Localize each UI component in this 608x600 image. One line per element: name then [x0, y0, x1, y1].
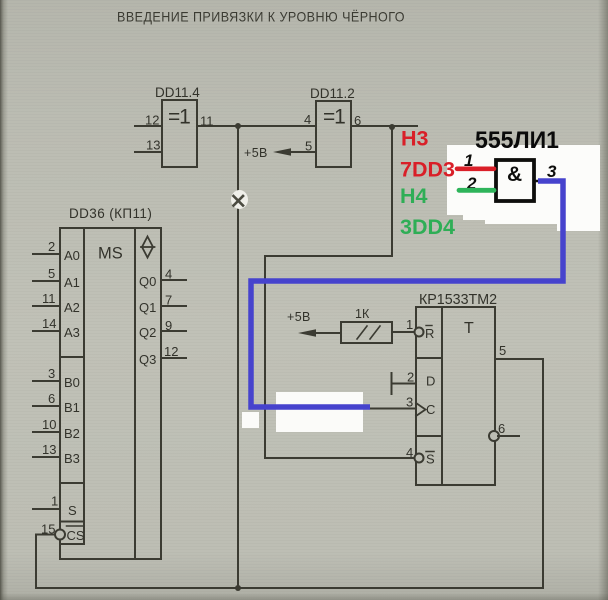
- bottom bus wire: [36, 587, 543, 589]
- dynamic input triangle at C: [416, 403, 426, 416]
- gate DD11.2 function label =1: [323, 106, 345, 129]
- svg-text:T: T: [464, 320, 474, 337]
- wire input pin 13 of DD11.4: [135, 151, 162, 153]
- svg-text:2: 2: [48, 239, 55, 254]
- svg-text:5: 5: [499, 343, 506, 358]
- white correction patch big: [276, 392, 363, 432]
- handwritten pin number 3: [547, 162, 557, 181]
- svg-text:B3: B3: [64, 451, 80, 466]
- MS function label: [98, 245, 123, 263]
- label C: [426, 402, 435, 417]
- label A2: [64, 300, 80, 315]
- label CS with overline: [67, 526, 85, 543]
- pin number 11: [42, 291, 56, 306]
- handwritten pin number 2: [466, 174, 477, 193]
- pin number 9: [165, 318, 172, 333]
- wire output pin 7 Q1: [161, 305, 186, 307]
- wire input pin 2 A0: [33, 253, 60, 255]
- svg-text:7DD3: 7DD3: [400, 158, 455, 182]
- svg-text:3: 3: [48, 366, 55, 381]
- gate DD11.4 function label =1: [168, 106, 190, 129]
- pin number 14: [42, 316, 56, 331]
- svg-text:ВВЕДЕНИЕ ПРИВЯЗКИ К УРОВНЮ ЧЁР: ВВЕДЕНИЕ ПРИВЯЗКИ К УРОВНЮ ЧЁРНОГО: [117, 9, 405, 25]
- svg-text:11: 11: [42, 291, 56, 306]
- svg-text:3: 3: [406, 395, 413, 410]
- wire output pin 9 Q2: [161, 330, 186, 332]
- label Q1: [139, 300, 156, 315]
- multiplexer DD36: [60, 228, 161, 559]
- inverted output pin 6 circle: [489, 431, 499, 441]
- wire input pin 12 of DD11.4: [135, 125, 162, 127]
- wire stub pin 6: [498, 435, 519, 437]
- svg-text:Н4: Н4: [400, 184, 428, 208]
- annotation Н3 red: [401, 127, 429, 151]
- wire input pin 3 B0: [33, 380, 60, 382]
- label Q3: [139, 352, 156, 367]
- svg-text:9: 9: [165, 318, 172, 333]
- label S: [68, 503, 77, 518]
- +5V label: [244, 146, 268, 160]
- pin number 15: [41, 522, 55, 537]
- svg-text:7: 7: [165, 293, 172, 308]
- svg-text:13: 13: [146, 138, 160, 153]
- svg-text:=1: =1: [168, 106, 190, 129]
- wire input pin 13 B3: [33, 456, 60, 458]
- svg-text:14: 14: [42, 316, 56, 331]
- pin number 5: [305, 139, 312, 154]
- svg-text:Q0: Q0: [139, 274, 156, 289]
- label B0: [64, 375, 80, 390]
- svg-text:&: &: [507, 163, 522, 186]
- junction node B: [389, 124, 395, 130]
- inverted input pin 1 R circle: [415, 328, 424, 337]
- pin number 12: [145, 113, 159, 128]
- annotation Н4 green: [400, 184, 428, 208]
- label A1: [64, 275, 80, 290]
- svg-text:5: 5: [48, 266, 55, 281]
- DD36 chip label: [69, 206, 152, 221]
- svg-text:A2: A2: [64, 300, 80, 315]
- label B3: [64, 451, 80, 466]
- svg-text:12: 12: [164, 344, 178, 359]
- wire output pin 5 of flip-flop to bottom bus: [495, 359, 543, 588]
- svg-text:5: 5: [305, 139, 312, 154]
- diamond output qualifier symbol: [141, 237, 155, 258]
- pin number 5: [499, 343, 506, 358]
- svg-text:Q1: Q1: [139, 300, 156, 315]
- handwritten pin number 1: [464, 151, 473, 170]
- КР1533ТМ2 chip label: [419, 292, 497, 308]
- svg-text:Н3: Н3: [401, 127, 429, 151]
- svg-text:D: D: [426, 374, 435, 389]
- svg-text:S: S: [426, 452, 435, 467]
- wire input pin 10 B2: [33, 431, 60, 433]
- AND gate U1 555ЛИ1 hand-drawn: [496, 160, 534, 201]
- wire input pin 14 A3: [33, 330, 60, 332]
- wire input pin 6 B1: [33, 405, 60, 407]
- gate DD11.4 label: [155, 85, 200, 100]
- svg-text:4: 4: [304, 112, 311, 127]
- pin number 11: [200, 114, 214, 129]
- svg-text:6: 6: [354, 113, 361, 128]
- svg-text:4: 4: [165, 267, 172, 282]
- pin number 6: [354, 113, 361, 128]
- svg-text:C: C: [426, 402, 435, 417]
- svg-text:=1: =1: [323, 106, 345, 129]
- pin number 1: [406, 317, 413, 332]
- svg-text:Q2: Q2: [139, 325, 156, 340]
- +5V feed to pin 5 of DD11.2: [273, 148, 316, 156]
- pin number 6: [48, 391, 55, 406]
- label B1: [64, 400, 80, 415]
- pin number 7: [165, 293, 172, 308]
- svg-text:2: 2: [407, 370, 414, 385]
- inverted input pin 15 CS circle: [55, 530, 65, 540]
- title text: [117, 9, 405, 25]
- svg-text:12: 12: [145, 113, 159, 128]
- pin number 3: [406, 395, 413, 410]
- pin number 2: [407, 370, 414, 385]
- white correction blob under cross mark: [231, 190, 248, 209]
- +5V feed through resistor: [298, 329, 341, 337]
- white correction patch small: [242, 412, 259, 428]
- input pin 2 D stub with bar: [392, 373, 417, 394]
- green wire pin 2 of U1: [459, 188, 494, 193]
- pin number 13: [146, 138, 160, 153]
- pin number 3: [48, 366, 55, 381]
- svg-text:1: 1: [51, 494, 58, 509]
- svg-text:A1: A1: [64, 275, 80, 290]
- pin number 2: [48, 239, 55, 254]
- svg-text:DD11.4: DD11.4: [155, 85, 200, 100]
- wire input pin 5 A1: [33, 280, 60, 282]
- svg-text:555ЛИ1: 555ЛИ1: [475, 127, 559, 154]
- pin number 13: [42, 442, 56, 457]
- wire output pin 12 Q3: [161, 357, 186, 359]
- label B2: [64, 426, 80, 441]
- label A3: [64, 325, 80, 340]
- svg-text:6: 6: [48, 391, 55, 406]
- pin number 5: [48, 266, 55, 281]
- svg-text:B1: B1: [64, 400, 80, 415]
- wire output 11 of DD11.4 to input 4 of DD11.2: [197, 125, 316, 127]
- black output stub pin 3 of U1: [535, 180, 563, 182]
- pin number 1: [51, 494, 58, 509]
- gate DD11.2 label: [310, 86, 355, 101]
- svg-text:3: 3: [547, 162, 557, 181]
- value label 1K: [355, 307, 370, 321]
- wire output 6 of DD11.2: [351, 125, 417, 127]
- label Q2: [139, 325, 156, 340]
- 555ЛИ1 part label: [475, 127, 559, 154]
- wire output pin 4 Q0: [161, 279, 186, 281]
- wire from pin 15 CS to bottom bus: [36, 535, 55, 589]
- label A0: [64, 248, 80, 263]
- svg-text:MS: MS: [98, 245, 123, 263]
- ampersand function label: [507, 163, 522, 186]
- svg-text:4: 4: [406, 445, 413, 460]
- svg-text:1: 1: [406, 317, 413, 332]
- wire resistor to pin 1 R: [392, 331, 414, 333]
- svg-text:КР1533ТМ2: КР1533ТМ2: [419, 292, 497, 308]
- wire input pin 3 C: [368, 408, 416, 410]
- +5V label at resistor: [287, 310, 311, 324]
- svg-text:+5В: +5В: [287, 310, 311, 324]
- pin number 12: [164, 344, 178, 359]
- svg-text:A0: A0: [64, 248, 80, 263]
- svg-text:DD36 (КП11): DD36 (КП11): [69, 206, 152, 221]
- svg-text:CS: CS: [67, 528, 85, 543]
- svg-text:Q3: Q3: [139, 352, 156, 367]
- label D: [426, 374, 435, 389]
- gate DD11.2: [316, 101, 351, 167]
- svg-text:10: 10: [42, 417, 56, 432]
- svg-text:6: 6: [498, 421, 505, 436]
- annotation 7DD3 red: [400, 158, 455, 182]
- pin number 6: [498, 421, 505, 436]
- wire vertical from node A down to bottom bus: [237, 126, 239, 587]
- red wire pin 1 of U1: [457, 167, 494, 172]
- junction node C on bottom bus: [235, 585, 241, 591]
- wire input pin 11 A2: [33, 305, 60, 307]
- svg-text:13: 13: [42, 442, 56, 457]
- svg-text:B2: B2: [64, 426, 80, 441]
- inverted input pin 4 S circle: [415, 454, 424, 463]
- svg-text:B0: B0: [64, 375, 80, 390]
- blue wire from U1 output to pin C of flip-flop: [251, 181, 563, 407]
- label Q0: [139, 274, 156, 289]
- pin number 4: [304, 112, 311, 127]
- wire from node B down-left to pin 4 S of DD flip-flop: [265, 126, 414, 458]
- pin number 4: [406, 445, 413, 460]
- svg-text:+5В: +5В: [244, 146, 268, 160]
- svg-text:3DD4: 3DD4: [400, 215, 455, 239]
- label S with overline: [426, 452, 435, 467]
- svg-text:1К: 1К: [355, 307, 370, 321]
- cross mark X on vertical wire: [234, 196, 244, 206]
- wire input pin 1 S: [33, 508, 60, 510]
- pin number 4: [165, 267, 172, 282]
- svg-text:11: 11: [200, 114, 214, 129]
- gate DD11.4: [162, 100, 197, 167]
- svg-text:DD11.2: DD11.2: [310, 86, 355, 101]
- white paper patch behind 555ЛИ1: [447, 145, 600, 231]
- pin number 10: [42, 417, 56, 432]
- flip-flop DD КР1533ТМ2: [416, 307, 495, 485]
- junction node A: [235, 123, 241, 129]
- T function label: [464, 320, 474, 337]
- svg-text:A3: A3: [64, 325, 80, 340]
- annotation 3DD4 green: [400, 215, 455, 239]
- resistor R1 1K: [341, 322, 392, 343]
- svg-text:R: R: [425, 326, 434, 341]
- label R: [425, 326, 434, 342]
- svg-text:S: S: [68, 503, 77, 518]
